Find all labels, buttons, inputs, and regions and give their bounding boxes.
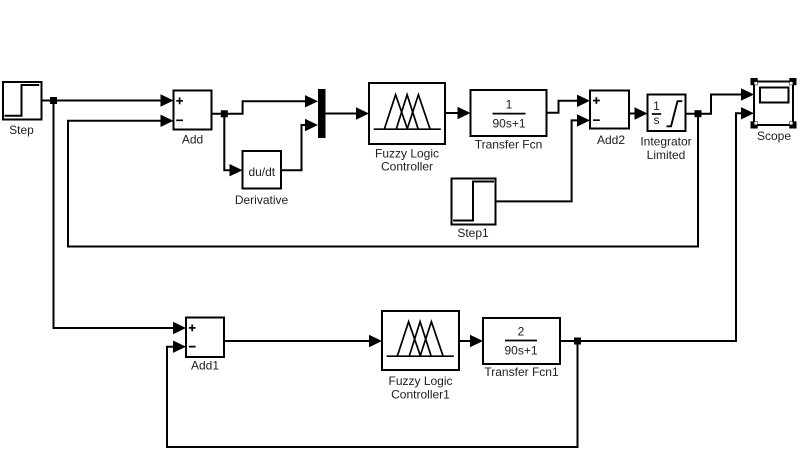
svg-text:90s+1: 90s+1 [504,344,537,358]
svg-text:Step1: Step1 [457,226,489,240]
svg-text:Controller1: Controller1 [391,388,450,402]
svg-text:Step: Step [9,123,34,137]
svg-text:Add2: Add2 [597,133,625,147]
svg-text:Transfer Fcn1: Transfer Fcn1 [484,365,559,379]
svg-text:Integrator: Integrator [640,135,691,149]
svg-text:Derivative: Derivative [235,193,289,207]
svg-text:Add: Add [182,133,203,147]
svg-text:Fuzzy Logic: Fuzzy Logic [375,147,439,161]
svg-text:Transfer Fcn: Transfer Fcn [475,138,543,152]
svg-text:du/dt: du/dt [248,165,275,179]
svg-text:s: s [654,113,660,127]
svg-text:Controller: Controller [381,160,433,174]
svg-text:Limited: Limited [647,148,686,162]
svg-text:Fuzzy Logic: Fuzzy Logic [388,374,452,388]
svg-text:Add1: Add1 [191,359,219,373]
svg-text:1: 1 [653,99,660,113]
svg-text:Scope: Scope [757,129,791,143]
svg-text:2: 2 [518,325,525,339]
svg-text:1: 1 [506,98,513,112]
svg-text:90s+1: 90s+1 [492,117,525,131]
